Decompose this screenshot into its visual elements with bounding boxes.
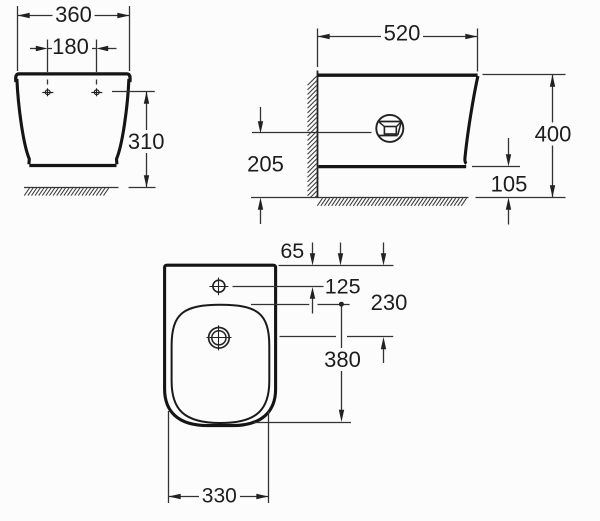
dimension 400 label <box>534 122 572 147</box>
side view bottom edge extension line <box>472 166 520 168</box>
svg-text:180: 180 <box>52 34 89 59</box>
svg-text:205: 205 <box>247 152 284 177</box>
faucet leader line <box>233 286 324 288</box>
floor hatch under front view <box>24 188 108 196</box>
dot reference line y=304 <box>251 304 350 306</box>
dimension 65 label <box>280 239 304 263</box>
down arrow at x=383.8 (230) <box>381 243 386 266</box>
plan faucet hole <box>209 278 228 296</box>
svg-text:125: 125 <box>325 275 361 299</box>
dimension 205 upper arrow <box>258 107 263 134</box>
down arrow at x=340.7 (125) <box>338 243 343 266</box>
down arrow at x=312.9 (65) <box>310 243 315 266</box>
dimension 230 label <box>371 290 408 315</box>
dimension 380 label <box>324 347 361 372</box>
dimension 330 label <box>199 485 240 508</box>
svg-text:310: 310 <box>128 129 165 154</box>
dimension 180 label <box>52 34 92 59</box>
dimension 360 label <box>53 2 95 27</box>
up arrow at x=383.8 (230 pair) <box>381 337 386 363</box>
front view right side <box>117 79 129 164</box>
svg-text:520: 520 <box>384 21 421 46</box>
dimension 310 line and arrows <box>144 92 149 188</box>
plan bottom reference line <box>254 422 351 424</box>
dimension 105 label <box>491 172 528 197</box>
wall hatch <box>308 76 317 197</box>
dimension 380 vertical line <box>339 307 344 423</box>
dimension 520 line and arrows <box>318 34 478 39</box>
dimension 360 line and arrows <box>17 13 130 18</box>
dimension 520 extension lines <box>318 29 478 72</box>
drain leader line <box>252 132 372 134</box>
wall line <box>317 71 319 198</box>
dimension 205 label <box>247 152 284 177</box>
floor hatch under side view <box>317 198 466 206</box>
floor line under side view <box>251 197 469 199</box>
dimension 520 label <box>381 21 423 46</box>
dimension 105 upper arrow <box>506 138 511 167</box>
dimension 330 line and arrows <box>168 494 268 499</box>
svg-text:360: 360 <box>55 2 92 27</box>
svg-text:400: 400 <box>535 122 572 147</box>
dimension 310 bottom extension line <box>129 187 156 189</box>
floor line under front view <box>24 187 119 189</box>
dimension 105 lower arrow <box>506 198 511 225</box>
plan outer outline <box>165 265 276 425</box>
side view bottom edge <box>319 165 467 168</box>
reference dot <box>339 302 344 307</box>
dimension 180 line and arrows <box>30 46 117 51</box>
plan top edge extension line <box>279 265 394 267</box>
svg-text:380: 380 <box>324 347 361 372</box>
dimension 180 extension lines <box>48 40 97 85</box>
dimension 360 extension lines <box>18 6 130 71</box>
plan inner bowl outline <box>172 305 270 423</box>
side view right edge <box>465 76 478 164</box>
front view bottom edge <box>29 164 116 167</box>
svg-text:105: 105 <box>491 172 528 197</box>
drain level line y=336.8 <box>280 336 394 338</box>
svg-text:230: 230 <box>371 290 408 315</box>
svg-text:330: 330 <box>202 485 237 508</box>
faucet hole symbol right <box>91 88 102 96</box>
side view top edge <box>318 74 478 77</box>
svg-text:65: 65 <box>280 239 304 263</box>
plan drain <box>207 325 232 350</box>
leader line from right hole to 310 dimension <box>112 91 155 93</box>
faucet hole symbol left <box>42 88 53 96</box>
dimension 400 top extension line <box>483 74 566 76</box>
up arrow at x=312.9 (65 pair) <box>310 287 315 314</box>
dimension 125 label <box>325 275 361 299</box>
front view rim <box>16 74 130 82</box>
dimension 205 lower arrow <box>258 198 263 225</box>
dimension 310 label <box>128 129 165 154</box>
dimension 400 line and arrows <box>550 75 555 198</box>
dimension 400 bottom extension line <box>476 197 566 199</box>
front view left side <box>17 79 29 164</box>
dimension 330 extension lines <box>169 411 269 503</box>
drain symbol circle <box>376 115 403 142</box>
drain symbol pictogram <box>378 122 401 136</box>
